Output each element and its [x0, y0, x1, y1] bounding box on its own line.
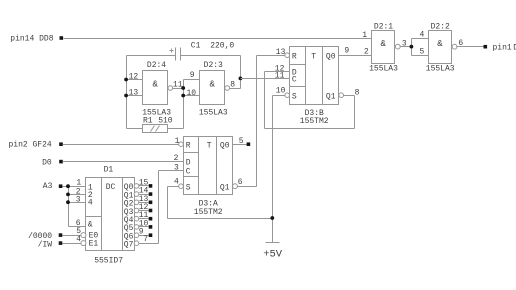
svg-text:4: 4: [88, 199, 93, 208]
D1 output Q4 pin 11: [124, 211, 153, 225]
flip-flop D3:B 155TM2: [285, 47, 339, 126]
wire /IW to D1 E1: [63, 243, 81, 245]
D2:4 pin 12 label: [129, 72, 139, 81]
wire D0 to D3:A D input: [63, 161, 184, 163]
svg-text:S: S: [292, 92, 297, 101]
svg-text:D1: D1: [104, 166, 114, 175]
D2:4 pin 13 label: [129, 88, 139, 97]
wire pin14 DD8 to D2:1 pin 1: [64, 38, 372, 40]
wire D3:B Q1 output pin 8: [339, 93, 355, 98]
svg-text:1: 1: [175, 137, 180, 146]
port pin2 GF24: [8, 141, 62, 150]
svg-text:4: 4: [420, 31, 425, 40]
D2:3 pin 10 label: [187, 89, 197, 98]
svg-text:Q0: Q0: [326, 52, 336, 61]
svg-text:DC: DC: [106, 183, 116, 192]
D1 E0 input circle pin 5: [76, 227, 86, 237]
svg-text:6: 6: [76, 219, 81, 228]
wire D3:B S input pin 10 to +5V rail: [273, 96, 285, 219]
NAND gate D2:2 155LA3: [426, 23, 457, 74]
svg-text:+5V: +5V: [263, 249, 283, 261]
svg-text:13: 13: [129, 88, 139, 97]
D1 pin 3 label: [76, 196, 81, 205]
wire C1 right plate to D3:B C node: [181, 56, 241, 89]
D3:A pin 4 label: [174, 178, 179, 187]
svg-text:T: T: [207, 141, 212, 150]
port pin14 DD8: [10, 34, 63, 43]
svg-text:Q1: Q1: [220, 183, 230, 192]
svg-text:Q0: Q0: [220, 141, 230, 150]
D2:4 pin 11 label: [173, 80, 183, 89]
svg-text:A3: A3: [43, 182, 53, 191]
wire D2:2 output pin 6 to pin1 port: [457, 46, 484, 48]
svg-text:155LA3: 155LA3: [426, 64, 455, 73]
svg-text:&: &: [210, 80, 216, 90]
svg-text:R: R: [186, 141, 191, 150]
flip-flop D3:A 155TM2: [179, 137, 233, 218]
wire A3 to D1 address inputs and pin 6: [63, 187, 86, 227]
D2:3 pin 8 label: [230, 80, 235, 89]
svg-text:155LA3: 155LA3: [199, 109, 228, 118]
junction dots at D2:3 inputs: [181, 86, 185, 97]
port pin1 DD: [484, 43, 516, 52]
svg-text:220,0: 220,0: [210, 41, 234, 50]
svg-text:&: &: [437, 39, 443, 49]
svg-text:C1: C1: [191, 41, 201, 50]
svg-text:12: 12: [129, 72, 139, 81]
wire D2:3 input pin 9: [184, 80, 200, 129]
svg-text:pin2 GF24: pin2 GF24: [8, 141, 51, 150]
D2:2 pin 6 label: [458, 39, 463, 48]
svg-text:D2:3: D2:3: [204, 61, 223, 70]
svg-text:D: D: [186, 159, 191, 168]
svg-text:10: 10: [276, 87, 286, 96]
svg-text:D2:2: D2:2: [431, 23, 450, 32]
svg-text:510: 510: [158, 116, 173, 125]
wire D3:A Q1 output pin 6 to D3:B R: [233, 184, 257, 189]
svg-text:8: 8: [355, 89, 360, 98]
D3:A pin 5 label: [239, 137, 244, 146]
wire D3:B R input pin 13 from D3:A Q1: [257, 56, 285, 187]
wire left feedback vertical (D2:4 inputs / C1 / R1): [127, 56, 176, 129]
svg-text:D2:4: D2:4: [147, 61, 166, 70]
capacitor C1 220,0: [170, 41, 235, 60]
wire D2:3 output pin 8: [230, 88, 241, 90]
D3:A pin 3 label: [174, 163, 179, 172]
junction dot at C1 / D2:3 output / D3:B C: [239, 77, 243, 81]
wire D3:B D input pin 12 feedback: [265, 72, 355, 129]
svg-text:155TM2: 155TM2: [300, 117, 329, 126]
svg-text:9: 9: [344, 47, 349, 56]
D1 output Q0 pin 15: [124, 178, 153, 192]
NAND gate D2:1 155LA3: [369, 23, 400, 74]
wire D2:4 output pin 11 to node: [173, 88, 184, 90]
svg-text:155TM2: 155TM2: [194, 208, 223, 217]
wire D2:4 input pin 12: [127, 79, 143, 81]
wire /0000 to D1 E0: [63, 235, 81, 237]
D1 pin 1 label: [76, 179, 81, 188]
svg-text:1: 1: [362, 31, 367, 40]
svg-text:D0: D0: [42, 159, 52, 168]
svg-text:C: C: [292, 76, 297, 85]
resistor R1 510: [143, 116, 173, 132]
port A3: [43, 182, 63, 191]
decoder D1 555ID7: [86, 166, 135, 266]
junction dot at D2:1 output: [410, 45, 414, 49]
D1 output Q7 pin 7: [124, 235, 159, 250]
svg-text:C: C: [186, 167, 191, 176]
NAND gate D2:4 155LA3: [142, 61, 172, 117]
D1 pin 6 label: [76, 219, 81, 228]
svg-text:10: 10: [187, 89, 197, 98]
D2:1 pin 3 label: [402, 39, 407, 48]
svg-text:pin14 DD8: pin14 DD8: [10, 34, 53, 43]
svg-text:6: 6: [238, 178, 243, 187]
wire R1 left terminal: [127, 128, 143, 130]
D1 output Q5 pin 10: [124, 219, 153, 233]
D1 E1 input circle pin 4: [76, 235, 86, 245]
D1 output Q3 pin 12: [124, 203, 153, 217]
port /0000: [28, 232, 62, 241]
NAND gate D2:3 155LA3: [199, 61, 230, 117]
svg-text:4: 4: [174, 178, 179, 187]
svg-text:11: 11: [275, 72, 285, 81]
D2:3 pin 9 label: [190, 71, 195, 80]
junction dots at D2:4 inputs: [124, 78, 128, 98]
svg-text:&: &: [88, 220, 93, 229]
svg-text:3: 3: [76, 196, 81, 205]
svg-text:7: 7: [143, 235, 148, 244]
wire pin2 GF24 to D3:A R input: [63, 144, 179, 146]
wire D3:A Q0 output pin 5 stub: [233, 142, 251, 146]
D2:2 pin 5 label: [420, 48, 425, 57]
svg-text:5: 5: [420, 48, 425, 57]
wire D2:3 input pin 10: [184, 95, 200, 97]
wire D2:1 output pin 3 to D2:2 inputs: [401, 39, 429, 56]
svg-text:pin1: pin1: [493, 43, 512, 52]
svg-text:2: 2: [364, 47, 369, 56]
D1 output Q1 pin 14: [124, 187, 153, 201]
svg-text:S: S: [186, 183, 191, 192]
D2:2 pin 4 label: [420, 31, 425, 40]
svg-text:155LA3: 155LA3: [369, 64, 398, 73]
junction dots on A3 net: [66, 184, 70, 204]
D3:B pin 8 label: [355, 89, 360, 98]
D3:B pin 13 label: [276, 48, 286, 57]
D3:A pin 6 label: [238, 178, 243, 187]
wire D2:4 input pin 13: [127, 95, 143, 97]
svg-text:Q1: Q1: [326, 92, 336, 101]
D3:B pin 11 label: [275, 72, 285, 81]
svg-text:E1: E1: [89, 239, 99, 248]
D3:B pin 10 label: [276, 87, 286, 96]
wire D3:A S input pin 4 to +5V rail: [168, 187, 273, 219]
D3:B pin 12 label: [275, 65, 285, 74]
power +5V: [263, 219, 283, 261]
svg-text:2: 2: [174, 154, 179, 163]
svg-text:1: 1: [76, 179, 81, 188]
port D0: [42, 159, 63, 168]
D1 output Q2 pin 13: [124, 195, 153, 209]
wire R1 right terminal: [168, 128, 184, 130]
svg-text:T: T: [311, 52, 316, 61]
port /IW: [38, 241, 63, 250]
svg-text:&: &: [380, 39, 386, 49]
D3:A pin 2 label: [174, 154, 179, 163]
svg-text:R: R: [292, 52, 297, 61]
svg-text:3: 3: [402, 39, 407, 48]
svg-text:9: 9: [190, 71, 195, 80]
svg-text:555ID7: 555ID7: [94, 257, 123, 266]
wire D3:B Q0 output pin 9 to D2:1 pin 2: [339, 55, 372, 57]
D1 pin 2 label: [76, 188, 81, 197]
svg-text:4: 4: [76, 235, 81, 244]
svg-text:/IW: /IW: [38, 241, 53, 250]
svg-text:D2:1: D2:1: [374, 23, 393, 32]
D1 output Q6 pin 9: [124, 228, 153, 242]
svg-text:&: &: [152, 80, 158, 90]
D3:A pin 1 label: [175, 137, 180, 146]
svg-text:R1: R1: [143, 116, 153, 125]
D2:1 pin 1 label: [362, 31, 367, 40]
D2:1 pin 2 label: [364, 47, 369, 56]
junction dot on +5V rail: [270, 216, 274, 220]
svg-text:Q7: Q7: [124, 241, 134, 250]
wire node to D3:B C input pin 11: [241, 78, 290, 80]
wire D3:A C input pin 3 from D1 Q7: [159, 171, 184, 244]
svg-text:/0000: /0000: [28, 232, 52, 241]
D3:B pin 9 label: [344, 47, 349, 56]
